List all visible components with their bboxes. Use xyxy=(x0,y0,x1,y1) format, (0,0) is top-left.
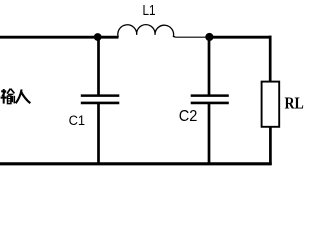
wire top input segment xyxy=(0,36,119,39)
char 输 left radical 车 xyxy=(1,90,6,92)
svg-text:C2: C2 xyxy=(179,107,198,125)
svg-text:L1: L1 xyxy=(143,2,156,19)
wire right vertical to RL top xyxy=(269,36,272,83)
resistor RL xyxy=(262,82,280,127)
node B junction dot xyxy=(205,33,213,41)
char 输 right part 俞 xyxy=(7,89,14,94)
node A junction dot xyxy=(94,33,102,41)
wire bottom return xyxy=(0,162,272,165)
wire RL bottom lead xyxy=(269,127,272,165)
wire top right segment xyxy=(209,36,272,39)
label 输入 (input), drawn as strokes xyxy=(1,89,31,104)
svg-text:C1: C1 xyxy=(69,112,85,128)
char 入 xyxy=(16,89,22,103)
svg-text:RL: RL xyxy=(285,94,304,113)
inductor L1 xyxy=(118,25,176,38)
wire L1 to node B (thin) xyxy=(176,36,206,38)
capacitor C1 xyxy=(81,37,120,165)
capacitor C2 xyxy=(191,37,229,165)
